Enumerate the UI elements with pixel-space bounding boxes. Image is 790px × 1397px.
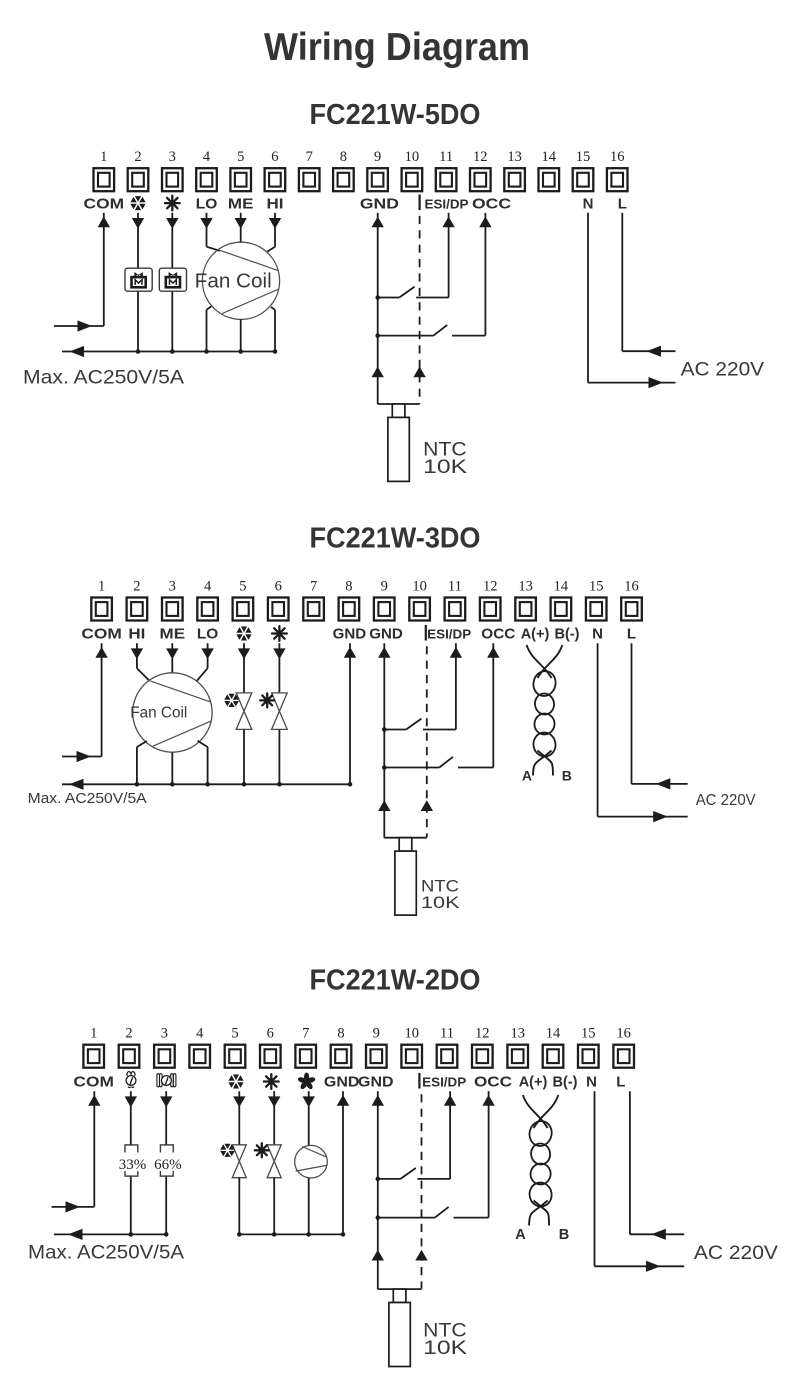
svg-text:13: 13 [507, 149, 522, 165]
svg-text:5: 5 [231, 1026, 238, 1042]
arrow up ESI/DP s3 [444, 1095, 456, 1106]
svg-text:6: 6 [267, 1026, 274, 1042]
arrow left bus s2 [69, 779, 84, 790]
wire valve 3 drop [171, 213, 173, 352]
svg-text:Fan Coil: Fan Coil [195, 271, 272, 293]
wire LO [206, 213, 208, 247]
arrow down cooling valve s2 [238, 648, 250, 659]
arrow right feed s2 [77, 751, 92, 762]
arrow left L s3 [651, 1229, 666, 1240]
arrow down heating valve s3 [268, 1096, 280, 1107]
svg-text:15: 15 [576, 149, 591, 165]
wire COM feed [54, 325, 104, 327]
svg-text:AC 220V: AC 220V [694, 1242, 778, 1264]
arrow right feed [78, 320, 93, 331]
wire COM terminal 1 s2 [101, 643, 103, 756]
svg-text:Fan Coil: Fan Coil [130, 705, 187, 722]
wire valve 2 drop [137, 213, 139, 352]
svg-text:8: 8 [340, 149, 347, 165]
wire ME [240, 213, 242, 243]
junction dots bus [136, 349, 141, 354]
svg-text:GND: GND [358, 1074, 394, 1091]
svg-text:B: B [562, 768, 572, 784]
svg-text:OCC: OCC [472, 195, 511, 212]
svg-text:2: 2 [125, 1026, 132, 1042]
label heating icon [272, 626, 287, 641]
fan motor s3 [308, 1091, 310, 1145]
svg-text:16: 16 [616, 1026, 631, 1042]
arrow down ME s2 [166, 648, 178, 659]
svg-text:L: L [616, 1074, 625, 1091]
dashed-net marker [419, 195, 421, 211]
svg-text:L: L [618, 195, 627, 212]
cooling icon s3 [220, 1144, 235, 1157]
wire OCC terminal 12 s2 [492, 643, 494, 767]
NTC sensor [378, 403, 420, 405]
arrow up COM s2 [95, 647, 107, 658]
svg-text:9: 9 [381, 578, 388, 594]
arrow down LO [200, 218, 212, 229]
svg-text:8: 8 [337, 1026, 344, 1042]
wire fan coil drop right s2 [198, 741, 208, 747]
arrow up COM [98, 217, 110, 228]
svg-text:14: 14 [542, 149, 557, 165]
switch SW2 s2 [382, 765, 387, 770]
arrow up GND8 s2 [344, 647, 356, 658]
svg-text:B: B [559, 1227, 569, 1243]
arrow up COM s3 [88, 1095, 100, 1106]
svg-text:15: 15 [581, 1026, 596, 1042]
svg-text:1: 1 [100, 149, 107, 165]
arrow left L [647, 346, 662, 357]
svg-text:A: A [515, 1227, 526, 1243]
switch SW2 s3 [376, 1215, 381, 1220]
svg-text:8: 8 [345, 578, 352, 594]
arrow down terminal 3 [166, 218, 178, 229]
arrow up GND9 s3 [372, 1095, 384, 1106]
wire fan coil drop middle s2 [171, 752, 173, 784]
svg-text:4: 4 [203, 149, 211, 165]
wire heater 66% drop [165, 1091, 167, 1145]
arrow up ESI/DP s2 [450, 647, 462, 658]
junction dots bus s2 [135, 782, 140, 787]
svg-text:HI: HI [128, 626, 145, 643]
svg-text:Wiring Diagram: Wiring Diagram [264, 26, 530, 69]
switch SW1 s3 [376, 1177, 381, 1182]
dashed-net marker [418, 1073, 420, 1089]
junction dots right bus s3 [237, 1232, 242, 1237]
svg-text:6: 6 [271, 149, 278, 165]
bus Max AC250V [62, 351, 276, 353]
arrow down terminal 2 [132, 218, 144, 229]
svg-text:HI: HI [267, 195, 284, 212]
svg-text:ESI/DP: ESI/DP [425, 196, 469, 211]
label cooling icon [228, 1075, 243, 1089]
svg-text:10: 10 [412, 578, 427, 594]
svg-text:14: 14 [554, 578, 569, 594]
svg-text:7: 7 [310, 578, 317, 594]
arrow down fan s3 [303, 1096, 315, 1107]
svg-text:GND: GND [333, 626, 367, 643]
switch SW2 to OCC [375, 333, 380, 338]
wire LO s2 [207, 643, 209, 668]
svg-text:13: 13 [518, 578, 533, 594]
dashed remote net [419, 216, 421, 404]
cooling valve s3 [238, 1091, 240, 1145]
wire COM feed s3 [52, 1206, 95, 1208]
twisted pair A B s2 [527, 645, 552, 678]
arrow right N s3 [646, 1261, 661, 1272]
svg-text:Max. AC250V/5A: Max. AC250V/5A [28, 1241, 184, 1263]
label heater icon 1 [126, 1072, 136, 1088]
wire fan coil drop left s2 [137, 741, 147, 747]
wire GND terminal 9 s2 [383, 643, 385, 838]
label heating icon [165, 196, 180, 211]
svg-text:L: L [627, 626, 636, 643]
bus right s3 [238, 1233, 344, 1235]
wire N terminal 15 [587, 213, 589, 383]
svg-text:GND: GND [369, 626, 403, 643]
wire GND terminal 9 s3 [377, 1091, 379, 1289]
wire COM terminal 1 s3 [93, 1091, 95, 1207]
wire OCC terminal 12 s3 [488, 1091, 490, 1217]
label cooling icon [130, 196, 145, 210]
label heater icon 2 [157, 1074, 176, 1087]
wire COM feed s2 [62, 756, 102, 758]
arrow up NTC right s3 [415, 1250, 427, 1261]
arrow up NTC left s2 [378, 800, 390, 811]
arrow up NTC right s2 [421, 800, 433, 811]
svg-text:4: 4 [204, 578, 212, 594]
motor valve V2 [159, 268, 186, 291]
bus Max AC250V s2 [62, 783, 350, 785]
svg-text:7: 7 [306, 149, 313, 165]
svg-text:6: 6 [275, 578, 282, 594]
svg-text:GND: GND [360, 195, 399, 212]
svg-text:14: 14 [546, 1026, 561, 1042]
wire HI [274, 213, 276, 247]
heating icon s3 [255, 1143, 269, 1157]
wire GND terminal 8 s3 [342, 1091, 344, 1234]
fan coil FC1 [202, 242, 279, 319]
svg-text:33%: 33% [119, 1157, 147, 1173]
heating valve s2 [278, 643, 280, 693]
wire ME s2 [171, 643, 173, 673]
arrow down ME [235, 218, 247, 229]
NTC sensor s2 [384, 837, 427, 839]
dashed-net marker [425, 625, 427, 641]
switch SW1 to ESI/DP [375, 295, 380, 300]
resistor 33% [125, 1145, 138, 1176]
svg-text:COM: COM [84, 195, 125, 212]
svg-text:15: 15 [589, 578, 604, 594]
svg-text:A(+): A(+) [519, 1075, 548, 1091]
svg-text:A(+): A(+) [521, 627, 550, 643]
svg-text:12: 12 [473, 149, 488, 165]
wire ESI/DP terminal 11 s2 [455, 643, 457, 729]
svg-text:7: 7 [302, 1026, 309, 1042]
arrow down heater 33% [125, 1096, 137, 1107]
label heating icon [264, 1074, 279, 1089]
arrow right feed s3 [66, 1201, 81, 1212]
svg-text:11: 11 [440, 1026, 454, 1042]
cooling valve s2 [243, 643, 245, 693]
dashed remote net s2 [426, 646, 428, 837]
svg-text:B(-): B(-) [555, 627, 580, 643]
svg-text:B(-): B(-) [553, 1075, 578, 1091]
wire fan coil drop left [207, 306, 212, 310]
wire heater 33% drop [130, 1091, 132, 1145]
wire ESI/DP terminal 11 s3 [449, 1091, 451, 1179]
bus left s3 [54, 1233, 166, 1235]
label cooling icon [236, 627, 251, 641]
svg-text:ESI/DP: ESI/DP [427, 627, 471, 642]
arrow up NTC left s3 [372, 1250, 384, 1261]
switch SW1 s2 [382, 727, 387, 732]
svg-text:1: 1 [98, 578, 105, 594]
heating valve s3 [273, 1091, 275, 1145]
wire GND terminal 8 s2 [349, 643, 351, 784]
svg-text:ME: ME [228, 195, 254, 212]
dashed remote net s3 [421, 1094, 423, 1289]
svg-text:10: 10 [404, 1026, 419, 1042]
svg-text:12: 12 [475, 1026, 490, 1042]
arrow down heating valve s2 [273, 648, 285, 659]
wire OCC terminal 12 [484, 213, 486, 336]
svg-text:16: 16 [624, 578, 639, 594]
wire ESI/DP terminal 11 [448, 213, 450, 298]
svg-text:10K: 10K [423, 456, 467, 478]
svg-text:LO: LO [196, 195, 218, 212]
svg-text:LO: LO [197, 626, 219, 643]
arrow up NTC left [372, 367, 384, 378]
svg-text:66%: 66% [154, 1157, 182, 1173]
arrow down LO s2 [201, 648, 213, 659]
wire L terminal 16 s2 [631, 643, 633, 784]
wire GND terminal 9 [377, 213, 379, 404]
svg-text:N: N [586, 1074, 597, 1091]
svg-text:10K: 10K [421, 893, 460, 912]
svg-text:9: 9 [373, 1026, 380, 1042]
svg-text:COM: COM [81, 626, 122, 643]
svg-text:AC 220V: AC 220V [681, 359, 765, 381]
svg-text:ESI/DP: ESI/DP [422, 1075, 466, 1090]
svg-text:OCC: OCC [474, 1074, 512, 1091]
cooling icon s2 [224, 694, 239, 707]
wire L terminal 16 [621, 213, 623, 351]
fan coil FC2 [133, 673, 212, 752]
arrow right N s2 [653, 811, 668, 822]
svg-text:3: 3 [169, 578, 176, 594]
wire fan coil drop middle [240, 319, 242, 351]
arrow left bus s3 [68, 1229, 83, 1240]
svg-text:FC221W-2DO: FC221W-2DO [310, 965, 481, 997]
NTC sensor s3 [378, 1288, 422, 1290]
svg-text:16: 16 [610, 149, 625, 165]
wire L terminal 16 s3 [629, 1091, 631, 1234]
svg-text:N: N [592, 626, 603, 643]
svg-text:AC 220V: AC 220V [696, 792, 756, 809]
junction dots left bus s3 [129, 1232, 134, 1237]
svg-text:GND: GND [324, 1074, 360, 1091]
svg-text:Max. AC250V/5A: Max. AC250V/5A [23, 366, 184, 388]
svg-text:5: 5 [237, 149, 244, 165]
resistor 66% [160, 1145, 173, 1176]
wire COM terminal 1 [103, 213, 105, 326]
svg-text:12: 12 [483, 578, 498, 594]
svg-text:10K: 10K [423, 1337, 467, 1359]
arrow up GND [372, 217, 384, 228]
svg-text:4: 4 [196, 1026, 204, 1042]
wire HI s2 [136, 643, 138, 668]
svg-text:3: 3 [169, 149, 176, 165]
svg-text:3: 3 [161, 1026, 168, 1042]
arrow left L s2 [656, 778, 671, 789]
wire fan coil drop right [271, 307, 275, 310]
motor valve V1 [125, 268, 152, 291]
svg-text:10: 10 [405, 149, 420, 165]
arrow down HI s2 [131, 648, 143, 659]
arrow down HI [269, 218, 281, 229]
svg-text:ME: ME [160, 626, 186, 643]
arrow left bus [70, 346, 85, 357]
heating icon s2 [260, 693, 274, 707]
arrow up OCC s3 [482, 1095, 494, 1106]
svg-text:2: 2 [134, 149, 141, 165]
svg-text:A: A [522, 768, 532, 784]
wire N terminal 15 s3 [594, 1091, 596, 1266]
svg-text:11: 11 [439, 149, 453, 165]
svg-text:5: 5 [239, 578, 246, 594]
arrow right N [649, 377, 664, 388]
arrow up OCC s2 [487, 647, 499, 658]
wire N terminal 15 s2 [597, 643, 599, 816]
svg-text:13: 13 [510, 1026, 525, 1042]
svg-text:N: N [583, 195, 594, 212]
svg-text:COM: COM [73, 1074, 114, 1091]
svg-text:Max. AC250V/5A: Max. AC250V/5A [28, 791, 147, 807]
svg-text:1: 1 [90, 1026, 97, 1042]
svg-text:OCC: OCC [481, 626, 515, 643]
svg-text:2: 2 [133, 578, 140, 594]
arrow up NTC right [413, 367, 425, 378]
svg-text:9: 9 [374, 149, 381, 165]
arrow down cooling valve s3 [233, 1096, 245, 1107]
svg-text:FC221W-3DO: FC221W-3DO [310, 523, 481, 555]
twisted pair A B s3 [523, 1095, 548, 1128]
arrow up ESI/DP [442, 217, 454, 228]
label fan icon [297, 1073, 316, 1091]
arrow up OCC [479, 217, 491, 228]
arrow down heater 66% [160, 1096, 172, 1107]
svg-text:FC221W-5DO: FC221W-5DO [310, 99, 481, 131]
arrow up GND9 s2 [378, 647, 390, 658]
arrow up GND8 s3 [337, 1095, 349, 1106]
svg-text:11: 11 [448, 578, 462, 594]
